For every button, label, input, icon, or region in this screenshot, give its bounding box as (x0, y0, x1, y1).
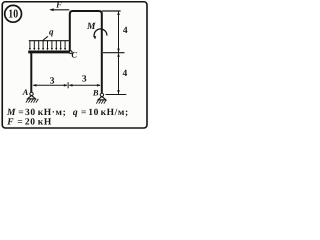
svg-text:M: M (86, 22, 96, 32)
beam with distributed load (C beam) (28, 50, 70, 53)
support A: pin circle (26, 92, 38, 102)
svg-text:10: 10 (8, 7, 18, 21)
svg-text:3: 3 (50, 77, 55, 87)
horizontal dimension line right segment 3 (69, 84, 101, 87)
distributed load q: top line (29, 40, 69, 42)
left column to support A (30, 52, 32, 92)
support B hatching (96, 100, 106, 104)
vertical dimension line upper segment 4 (117, 11, 120, 52)
label q with leader (42, 36, 48, 41)
dimension middle tick (67, 82, 69, 88)
support A hatching (26, 99, 38, 103)
support B triangle (98, 96, 106, 99)
support A triangle (28, 95, 36, 98)
svg-text:A: A (22, 87, 29, 97)
vertical dimension line lower segment 4 (117, 53, 120, 94)
svg-text:q: q (49, 27, 54, 37)
moment M arc arrow (93, 29, 107, 39)
frame: left vertical member C-column, top member, right vertical member (70, 11, 102, 93)
svg-text:C: C (71, 50, 77, 60)
extension line at B level (106, 94, 127, 96)
svg-text:F: F (55, 0, 62, 10)
extension line at C level (103, 52, 125, 54)
svg-text:3: 3 (82, 74, 87, 84)
svg-text:B: B (92, 87, 99, 97)
node C marker (69, 51, 72, 54)
outer border frame (2, 2, 147, 128)
force F arrow (49, 8, 69, 11)
svg-text:4: 4 (123, 69, 128, 79)
svg-text:F=20кН: F=20кН (6, 118, 52, 128)
problem number circle 10 (5, 5, 22, 22)
support B: pin circle (96, 93, 106, 103)
horizontal dimension line left segment 3 (33, 84, 68, 87)
top member extension line to dimension (102, 10, 121, 12)
svg-text:4: 4 (123, 26, 128, 36)
distributed load arrows (29, 41, 66, 50)
